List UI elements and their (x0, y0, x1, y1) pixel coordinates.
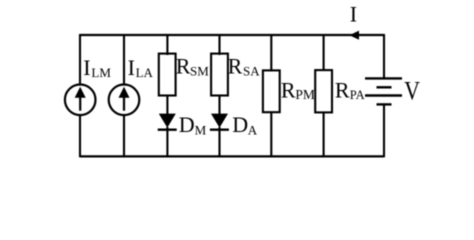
svg-text:V: V (404, 77, 420, 107)
label I_LM (83, 55, 111, 80)
wire branch3 mid (166, 96, 168, 115)
label R_PM (281, 78, 315, 103)
top rail (80, 34, 384, 36)
svg-text:R: R (176, 53, 191, 78)
svg-text:D: D (232, 112, 248, 137)
svg-text:I: I (128, 55, 135, 80)
diode D_A (210, 114, 229, 130)
current source I_LA (109, 85, 140, 116)
label I_LA (128, 55, 154, 80)
wire branch5 upper (270, 34, 272, 72)
resistor R_PA (315, 70, 332, 112)
wire branch1 lower (79, 115, 81, 157)
wire branch3 upper (166, 34, 168, 55)
svg-text:PM: PM (295, 87, 315, 102)
resistor R_SA (211, 54, 228, 96)
wire branch2 upper (123, 34, 125, 84)
wire branch5 lower (270, 112, 272, 157)
label D_A (232, 112, 258, 137)
svg-text:SA: SA (243, 64, 260, 79)
svg-text:R: R (228, 53, 243, 78)
wire branch2 lower (123, 115, 125, 157)
wire branch1 upper (79, 34, 81, 84)
svg-text:A: A (248, 122, 258, 137)
svg-text:I: I (350, 2, 357, 27)
label R_SM (176, 53, 210, 78)
bottom rail (80, 155, 384, 157)
svg-text:PA: PA (350, 88, 365, 102)
label D_M (179, 112, 207, 137)
label R_SA (228, 53, 261, 78)
svg-text:LA: LA (136, 65, 154, 80)
svg-text:D: D (179, 112, 195, 137)
diode D_M (158, 114, 177, 130)
wire battery top (383, 34, 385, 78)
wire branch4 lower (218, 127, 220, 157)
wire branch4 upper (218, 34, 220, 55)
battery V (365, 78, 402, 104)
wire branch6 lower (323, 112, 325, 157)
svg-text:R: R (281, 78, 296, 103)
svg-text:LM: LM (91, 65, 111, 80)
wire battery bottom (383, 104, 385, 157)
current source I_LM (65, 85, 96, 116)
svg-text:M: M (195, 122, 207, 137)
current arrow on top wire (349, 31, 359, 40)
svg-text:SM: SM (190, 64, 209, 79)
svg-text:R: R (335, 78, 350, 103)
resistor R_PM (263, 70, 280, 112)
wire branch3 lower (166, 127, 168, 157)
resistor R_SM (159, 54, 176, 96)
label R_PA (335, 78, 365, 103)
wire branch6 upper (323, 34, 325, 71)
svg-text:I: I (83, 55, 90, 80)
wire branch4 mid (218, 96, 220, 115)
